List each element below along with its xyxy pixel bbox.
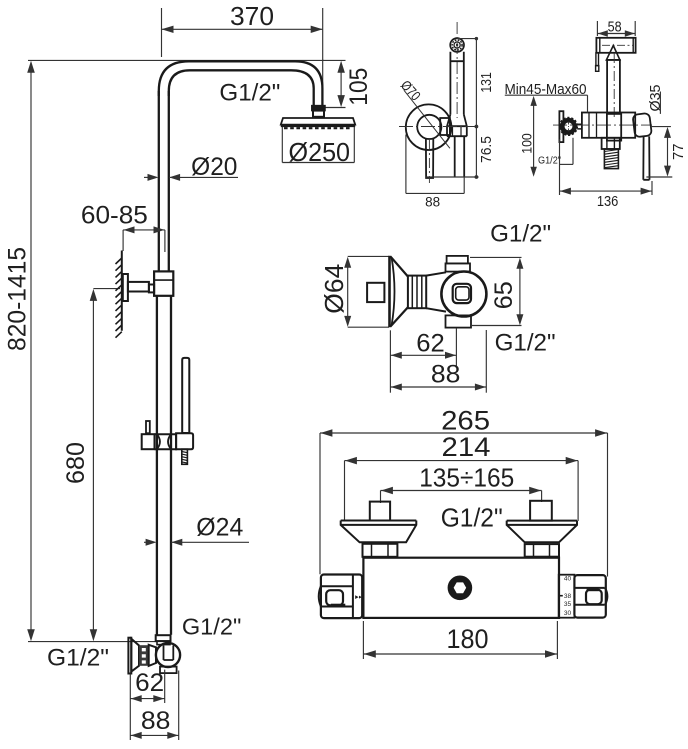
bottom port fitting: [446, 315, 472, 327]
right knob grip button: [586, 590, 602, 605]
shower head nozzle dashes: [284, 127, 352, 129]
dimension 58: [596, 21, 598, 36]
right knob: [574, 575, 605, 618]
svg-text:370: 370: [230, 3, 274, 31]
elbow outlet stub: [160, 667, 177, 674]
bottom outlet level extension line: [28, 641, 157, 643]
threaded nipple (hatched): [139, 645, 149, 666]
handwheel shaft: [577, 124, 582, 129]
wall escutcheon plate: [128, 638, 131, 674]
dimension 820-1415 (column height, left): [28, 59, 324, 61]
holder tube below nut: [455, 136, 465, 177]
shower head face thick bottom edge: [281, 124, 355, 127]
left inlet nut: [363, 544, 398, 557]
riser pipe upper section (Ø20): [158, 91, 160, 271]
head connector collar: [313, 111, 324, 117]
svg-text:Ø20: Ø20: [191, 153, 237, 181]
dimension 88 (bottom): [178, 671, 180, 741]
svg-text:38: 38: [564, 593, 572, 600]
lever centerline: [428, 140, 430, 183]
svg-text:136: 136: [597, 194, 619, 210]
svg-text:76.5: 76.5: [479, 136, 495, 163]
left inlet flange: [341, 521, 417, 543]
center screw black circle: [449, 577, 472, 600]
svg-text:G1/2": G1/2": [47, 645, 109, 672]
hose below holder: [643, 136, 649, 179]
shower arm inner edge: [169, 70, 314, 106]
sprayer nozzle tip: [596, 53, 599, 66]
svg-text:40: 40: [564, 576, 572, 583]
dimension 62 (mixer): [389, 330, 391, 392]
right knob grip bulge: [605, 588, 607, 605]
mixer wall stub: [367, 283, 384, 302]
dimension 62 (bottom): [129, 674, 131, 741]
svg-text:135÷165: 135÷165: [419, 462, 514, 492]
left knob: [321, 575, 362, 619]
valve square detail: [453, 284, 471, 303]
dimension Ø20: [148, 174, 159, 181]
dimension 60-85 (wall to pipe): [123, 229, 165, 231]
svg-text:30: 30: [564, 610, 572, 617]
Ø70 leader diagonal: [404, 90, 450, 148]
slider holder left block: [142, 434, 155, 449]
svg-text:180: 180: [447, 624, 489, 654]
svg-text:Ø250: Ø250: [289, 139, 351, 167]
shower arm (top bend pipe), outer edge: [159, 61, 323, 106]
sprayer handle centerline: [613, 53, 615, 120]
sprayer handle: [607, 60, 620, 113]
dimension 88 (hand shower): [405, 135, 407, 194]
top port fitting: [447, 256, 468, 264]
svg-text:65: 65: [490, 281, 518, 309]
supply nut: [149, 645, 156, 666]
dimension 65: [470, 256, 522, 258]
svg-text:214: 214: [442, 432, 491, 462]
dimension box Ø250: [281, 127, 283, 163]
flange nut ribs: [408, 276, 426, 309]
wall bracket arm: [128, 282, 149, 292]
right inlet stem: [530, 501, 552, 521]
holder cup: [633, 113, 652, 137]
valve body centerline: [553, 124, 652, 126]
svg-text:62: 62: [416, 329, 445, 357]
dimension 136: [559, 139, 561, 195]
holder screw with thread: [182, 449, 188, 464]
dimension 100: [533, 101, 535, 172]
dimension 131: [457, 38, 476, 40]
svg-text:88: 88: [425, 194, 440, 210]
sprayer head bar: [596, 38, 635, 53]
svg-text:88: 88: [431, 361, 461, 389]
leader to valve: [587, 95, 589, 112]
wall bracket plate: [123, 274, 128, 301]
svg-text:88: 88: [141, 707, 171, 735]
slider holder right cup: [176, 433, 193, 449]
slider holder body on pipe: [155, 434, 177, 449]
dimension 105 (head drop): [323, 59, 346, 61]
svg-text:820-1415: 820-1415: [3, 247, 31, 351]
sprayer neck cone: [606, 46, 620, 60]
riser bottom nut: [156, 635, 171, 641]
svg-text:680: 680: [62, 442, 90, 484]
mixer cartridge circle: [417, 115, 441, 139]
svg-text:58: 58: [608, 20, 622, 36]
hand shower head circle: [450, 38, 464, 52]
dimension 135÷165: [380, 491, 382, 504]
dimension Ø64: [348, 255, 389, 257]
mixer connector block: [440, 118, 450, 135]
outlet threaded stub (hatched): [604, 149, 618, 169]
dimension 77: [651, 126, 671, 128]
pipe clamp (tee): [154, 271, 173, 295]
riser pipe lower section (Ø24): [156, 296, 158, 635]
right knob strip (temperature scale): [559, 575, 575, 618]
outlet hex nut: [602, 138, 620, 149]
shower head plate: [281, 118, 355, 125]
left inlet stem: [370, 502, 390, 521]
svg-text:G1/2": G1/2": [219, 79, 280, 106]
dimension 265: [319, 433, 321, 574]
hand shower wand: [182, 358, 189, 433]
left knob grip button: [326, 590, 343, 605]
svg-text:77: 77: [671, 144, 687, 161]
right inlet flange: [507, 521, 577, 543]
mixer flange bell: [388, 256, 391, 328]
head connector nut (black): [312, 106, 325, 111]
wall line with hatching: [121, 251, 123, 331]
svg-text:G1/2": G1/2": [182, 613, 242, 639]
svg-text:100: 100: [518, 133, 534, 154]
svg-text:Ø24: Ø24: [196, 514, 243, 542]
svg-text:Ø35: Ø35: [648, 85, 664, 112]
dimension 680 (bracket to outlet): [93, 288, 120, 290]
svg-text:Ø64: Ø64: [319, 264, 349, 314]
svg-text:62: 62: [135, 669, 164, 697]
dimension 88 (mixer): [485, 330, 487, 393]
svg-text:G1/2": G1/2": [490, 221, 551, 248]
mixer lever: [426, 138, 433, 178]
left knob grip bulge: [319, 586, 321, 606]
mixer bar body: [363, 558, 559, 618]
hand shower handle: [450, 52, 463, 115]
bottom elbow union circle: [156, 643, 180, 667]
svg-text:60-85: 60-85: [81, 202, 148, 230]
mixer horizontal centerline: [399, 126, 477, 128]
svg-text:G1/2": G1/2": [538, 154, 561, 166]
handwheel knurled circle: [562, 120, 574, 132]
dimension 370 (top width): [161, 8, 163, 57]
mixer flange circle: [406, 104, 452, 150]
handle centerline: [456, 22, 458, 118]
bracket connector: [149, 285, 154, 293]
mixer body: [426, 272, 446, 311]
elbow inner socket: [164, 646, 174, 661]
dimension Ø24: [146, 539, 157, 546]
svg-text:G1/2": G1/2": [495, 330, 556, 357]
wall supply cone: [131, 639, 139, 672]
dimension 214: [344, 461, 346, 521]
handle base bracket: [607, 114, 621, 141]
dimension 180: [362, 621, 364, 659]
svg-text:131: 131: [479, 72, 495, 93]
svg-text:35: 35: [564, 601, 572, 608]
right inlet nut: [525, 544, 559, 557]
valve body cylinder: [582, 113, 635, 138]
slider holder left knob: [146, 421, 150, 433]
dimension 76.5: [475, 127, 477, 178]
svg-text:265: 265: [441, 406, 490, 436]
mixer valve circle: [441, 272, 486, 317]
svg-text:105: 105: [345, 68, 373, 106]
wall flange plate: [559, 111, 563, 142]
svg-text:G1/2": G1/2": [441, 503, 503, 533]
handle flare and nut: [447, 114, 467, 136]
